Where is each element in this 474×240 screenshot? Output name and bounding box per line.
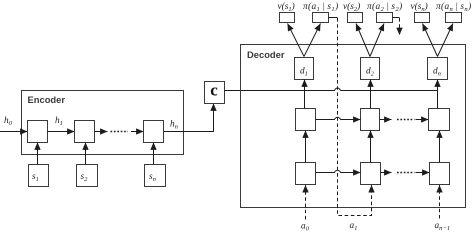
input s1 box — [29, 165, 49, 187]
wire c to decoder line — [225, 88, 438, 91]
encoder cell 1 — [28, 121, 48, 143]
wire row1col1 to d1 arrow — [304, 80, 306, 109]
wire row2col2 to row1col2 arrow — [370, 131, 372, 163]
svg-text:a1: a1 — [350, 221, 358, 232]
wire row1col2 to d2 arrow — [370, 80, 372, 109]
decoder cell row2 coln — [430, 163, 450, 185]
svg-text:s2: s2 — [81, 172, 89, 183]
wire h0 input arrow — [0, 131, 28, 133]
wire row2col1 to row1col1 arrow — [305, 131, 307, 163]
svg-text:Decoder: Decoder — [247, 49, 285, 60]
wire d1 to v1 arrow — [288, 24, 305, 57]
wire d2 to v2 arrow — [356, 24, 370, 57]
wire into row1 coln arrow — [416, 119, 429, 121]
wire row2coln to row1coln arrow — [439, 131, 441, 163]
svg-text:v(s1): v(s1) — [278, 1, 295, 13]
svg-text:π(an | sn): π(an | sn) — [436, 1, 472, 13]
output box vn — [415, 13, 430, 23]
output box v1 — [280, 13, 295, 23]
input s2 box — [77, 165, 98, 187]
decoder cell row1 col2 — [361, 109, 380, 131]
wire d2 to pi2 arrow — [370, 24, 384, 57]
wire row2 col1 to col2 arrow — [316, 170, 361, 172]
wire d1 to pi1 arrow — [304, 24, 321, 57]
decoder box — [241, 45, 466, 208]
context vector c box — [205, 82, 225, 104]
encoder cell 2 — [75, 121, 95, 143]
wire dn to vn arrow — [423, 24, 438, 57]
svg-text:v(s2): v(s2) — [343, 1, 360, 13]
wire pi2 feedback down arrow — [393, 18, 400, 36]
wire s2 arrow — [85, 143, 87, 165]
svg-text:sn: sn — [149, 172, 157, 183]
dashed feedback wire a1 — [338, 18, 372, 216]
wire row1coln to dn arrow — [437, 80, 439, 109]
wire row1 col2 out arrow — [380, 119, 392, 121]
dashed wire a0 arrow — [305, 185, 307, 219]
svg-text:hn: hn — [170, 120, 179, 131]
wire pi1 to feedback link — [329, 17, 338, 19]
output box pi2 — [377, 13, 393, 23]
svg-text:s1: s1 — [32, 172, 39, 183]
wire dn to pin arrow — [438, 24, 454, 57]
wire cell1 to cell2 arrow — [48, 131, 75, 133]
row1 ellipsis dots — [397, 119, 415, 121]
wire row1 col1 to col2 arrow — [316, 117, 361, 119]
decoder cell row2 col2 — [361, 163, 381, 185]
svg-text:c: c — [210, 81, 218, 100]
svg-text:π(a1 | s1): π(a1 | s1) — [303, 1, 339, 13]
svg-text:dn: dn — [433, 67, 442, 78]
decoder d2 box — [361, 58, 380, 80]
decoder cell row1 col1 — [296, 109, 316, 131]
encoder box — [22, 91, 184, 155]
output box v2 — [348, 13, 363, 23]
wire s1 arrow — [37, 143, 39, 165]
input sn box — [145, 165, 166, 187]
wire hn to c arrow — [164, 104, 214, 132]
svg-text:h0: h0 — [4, 116, 13, 127]
svg-text:h1: h1 — [55, 116, 63, 127]
svg-text:d1: d1 — [300, 67, 308, 78]
decoder cell row2 col1 — [296, 163, 316, 185]
wire sn arrow — [153, 143, 155, 165]
wire row2 col2 out arrow — [381, 172, 392, 174]
wire cell2 out arrow — [95, 131, 108, 133]
output box pin — [446, 13, 462, 23]
wire into cell n arrow — [131, 131, 144, 133]
svg-text:a0: a0 — [301, 222, 310, 233]
svg-text:d2: d2 — [366, 67, 375, 78]
row2 ellipsis dots — [397, 172, 415, 174]
decoder dn box — [428, 58, 448, 80]
dashed wire an-1 arrow — [439, 185, 441, 218]
output box pi1 — [313, 13, 329, 23]
svg-text:an−1: an−1 — [435, 221, 451, 232]
decoder cell row1 coln — [429, 109, 450, 131]
svg-text:π(a2 | s2): π(a2 | s2) — [367, 1, 403, 13]
decoder d1 box — [295, 58, 314, 80]
encoder cell n — [144, 121, 164, 143]
svg-text:Encoder: Encoder — [28, 94, 66, 105]
wire into row2 coln arrow — [416, 172, 430, 174]
encoder ellipsis dots — [111, 131, 129, 133]
svg-text:v(sn): v(sn) — [411, 1, 428, 13]
